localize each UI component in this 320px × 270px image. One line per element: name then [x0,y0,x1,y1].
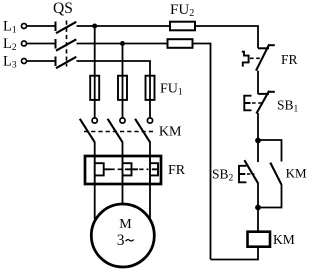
switch QS pole 2 fixed jaw [55,39,57,49]
wire KM1 to FR box [94,142,96,156]
node parallel bottom [255,205,261,211]
wire FR to motor 3 [149,184,151,220]
wire through fuse 1 [94,76,96,118]
wire L3 after QS [77,60,151,62]
svg-text:M: M [119,217,132,232]
terminal L1 [22,24,27,29]
fuse FU2 a [170,22,195,31]
wire drop column 1 [94,26,96,76]
terminal L3 [22,59,27,64]
thermal relay FR box [85,156,161,184]
FR trip actuator [242,52,249,67]
wire L3 to QS [27,60,55,62]
contactor KM pole 1 blade [80,119,95,142]
wire KM2 to FR box [122,142,124,156]
wire fuse B to left return rail [193,44,211,260]
switch QS linkage dashed [66,21,68,67]
SB1 button actuator [244,96,251,111]
FR trip linkage dashed [250,57,263,59]
svg-text:SB1: SB1 [277,97,299,114]
relay contact FR blade [256,44,269,70]
node L1 junction [92,24,97,29]
fuse FU1 pole 3 [146,76,155,100]
node parallel top [255,138,261,144]
relay contact FR blade cap [268,44,275,46]
svg-text:L3: L3 [3,54,17,71]
node L2 junction [120,41,125,46]
wire FR to motor 2 [122,184,124,204]
svg-text:SB2: SB2 [212,166,234,183]
contactor KM pole 3 blade [135,119,150,142]
wire KM3 to FR box [149,142,151,156]
switch QS pole 3 fixed jaw [55,57,57,67]
auxiliary contact KM blade [270,163,281,185]
FR heater element 3 [150,156,158,184]
svg-text:KM: KM [159,124,182,139]
wire fuse A to rail corner [195,26,258,48]
fuse FU1 pole 1 [90,76,99,100]
contactor KM pole 2 fixed contact [120,118,125,123]
fuse FU1 pole 2 [118,76,127,100]
terminal L2 [22,41,27,46]
wire drop column 2 [122,44,124,76]
svg-text:KM: KM [286,165,307,180]
switch QS pole 3 blade [56,57,76,68]
svg-text:QS: QS [53,0,73,17]
stop button SB1 (NC) fixed bar [258,93,269,95]
switch QS pole 2 blade [56,39,76,50]
wire rail node to coil [257,208,259,232]
wire FR to motor 1 [94,184,96,219]
svg-text:FU2: FU2 [170,2,194,19]
SB2 linkage dashed [247,173,255,175]
wire branch KM aux top [258,140,282,162]
coil KM [248,232,271,247]
wire L1 after QS [77,25,170,27]
svg-text:KM: KM [273,232,295,247]
contactor KM pole 2 blade [108,119,123,142]
switch QS pole 1 fixed jaw [55,22,57,32]
motor M [91,204,154,267]
wire rail SB1 to node [257,113,259,141]
switch QS pole 1 blade [56,22,76,33]
svg-text:FR: FR [281,52,298,67]
wire L1 to QS [27,25,55,27]
fuse FU2 b [168,39,193,48]
relay contact FR (NC) fixed bar [258,47,269,49]
svg-text:3: 3 [117,232,125,249]
contactor KM pole 3 fixed contact [147,118,152,123]
stop button SB1 blade cap [268,91,275,93]
contactor KM pole 1 fixed contact [92,118,97,123]
wire L2 after QS [77,43,168,45]
contactor KM linkage dashed [84,131,153,133]
wire SB2 to node bottom [257,183,259,208]
FR heater element 2 [123,156,139,184]
stop button SB1 blade [256,91,269,114]
SB2 button actuator [239,166,246,183]
wire rail FR to SB1 [257,71,259,94]
svg-text:FR: FR [168,163,186,178]
wire branch KM aux bottom [258,185,282,208]
wire coil to bottom return [211,247,259,260]
SB1 linkage dashed [252,102,263,104]
start button SB2 blade [244,160,258,183]
wire through fuse 2 [122,76,124,118]
FR linkage dashed [111,168,149,170]
wire through fuse 3 [149,76,151,118]
svg-text:L1: L1 [3,19,17,36]
wire rail node to SB2 [257,141,259,163]
wire drop column 3 [149,61,151,76]
svg-text:L2: L2 [3,36,17,53]
FR heater element 1 [95,156,111,184]
svg-text:FU1: FU1 [160,81,183,97]
wire L2 to QS [27,43,55,45]
